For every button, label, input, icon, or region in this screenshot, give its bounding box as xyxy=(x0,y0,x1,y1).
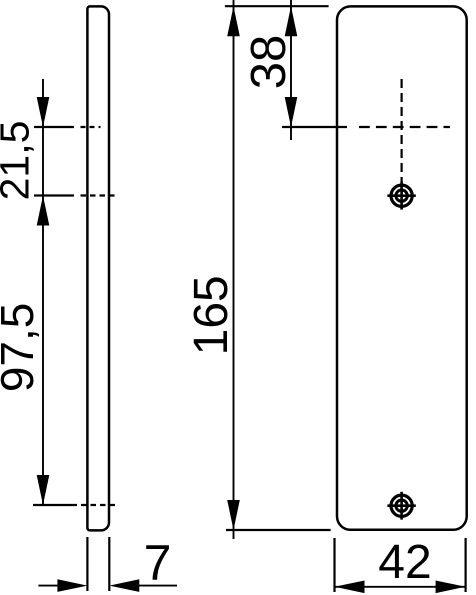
arrow left tip (42) xyxy=(335,581,365,594)
side view plate outline xyxy=(87,6,109,530)
top extension line xyxy=(225,5,329,7)
extension line y=127 xyxy=(34,126,74,128)
svg-text:38: 38 xyxy=(242,35,296,90)
38 dimension line xyxy=(290,0,292,140)
extension line y=195.5 xyxy=(34,194,74,196)
left dimension line xyxy=(42,79,44,505)
165 dimension line xyxy=(233,0,235,539)
bottom extension line (165) xyxy=(226,529,331,531)
42 extension line right xyxy=(465,538,467,592)
42 dimension line xyxy=(335,586,466,588)
svg-text:165: 165 xyxy=(185,275,238,355)
arrow left-pointing tip x=108.6 (7) xyxy=(109,579,139,592)
side view dashed center line upper (21,5 top) xyxy=(81,126,101,128)
arrow up tip y=6.2 (38) xyxy=(285,6,298,36)
front view dashed horizontal center line y=127 xyxy=(359,126,450,128)
7 dimension line right shaft xyxy=(139,585,177,587)
arrow down tip y=127 (38) xyxy=(285,97,298,127)
upper hole target symbol xyxy=(387,182,415,210)
side view dashed center line middle (hole level) xyxy=(81,194,117,196)
lower hole target symbol xyxy=(387,492,415,520)
arrow down tip y=530 (165) xyxy=(227,500,240,530)
extension line y=127 (38) xyxy=(282,126,347,128)
arrow right-pointing tip x=87.4 (7) xyxy=(57,579,87,592)
svg-text:42: 42 xyxy=(378,536,431,589)
svg-text:97,5: 97,5 xyxy=(0,303,43,393)
front view plate outline xyxy=(337,6,467,529)
7 extension line right xyxy=(108,537,110,591)
svg-text:7: 7 xyxy=(144,535,172,591)
svg-text:21,5: 21,5 xyxy=(0,121,38,201)
arrow down tip y=505 xyxy=(37,475,50,505)
arrow right tip (42) xyxy=(436,581,466,594)
extension line y=505 xyxy=(33,504,77,506)
7 extension line left xyxy=(86,537,88,591)
arrow up tip y=6.2 (165) xyxy=(227,6,240,36)
42 extension line left xyxy=(333,538,335,592)
front view dashed vertical center line xyxy=(401,79,403,183)
side view dashed center line lower (hole level) xyxy=(81,504,118,506)
arrow up tip y=195.5 xyxy=(37,196,50,226)
arrow down tip y=127 xyxy=(37,97,50,127)
7 dimension line left shaft xyxy=(38,585,58,587)
